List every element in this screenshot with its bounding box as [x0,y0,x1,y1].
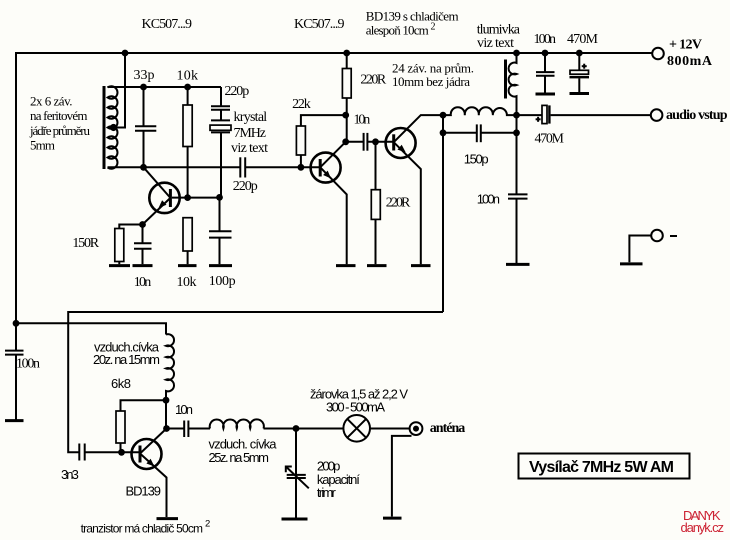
terminal minus circle [651,230,663,242]
svg-text:7MHz: 7MHz [234,126,267,141]
wire 100n supply upper lead [544,53,546,72]
wire collector node to 10n out [167,428,185,430]
svg-text:800mA: 800mA [667,54,713,69]
capacitor 200p trimmer [287,475,306,478]
junction trimmer node [293,425,300,432]
wire emitter to 10n [142,225,144,244]
junction rail tlumivka [513,50,520,57]
capacitor 150p [477,124,481,142]
junction rail 470M supply [576,50,583,57]
junction rail 100n supply [542,50,549,57]
plus sign (supply 470M) [582,64,587,69]
wire 6k8 branch horizontal [121,400,167,411]
ground (100p) [209,264,232,267]
inductor air coil 25z (output) [210,419,264,428]
resistor 10k (upper) [183,105,192,147]
wire 33p branch lower [143,131,145,167]
junction Q1 base / 10k divider [184,194,191,201]
ground (220R bias) [367,264,387,267]
wire 220p to krystal [220,110,222,120]
svg-text:10n: 10n [175,402,193,417]
transistor Q1 KC507 circle [149,183,179,213]
wire 150R to ground [118,262,120,265]
antenna jack outer circle [410,422,423,435]
resistor 10k (lower divider) [183,218,192,251]
junction 22k / 220R / Q2 collector rail [342,112,349,119]
ground (Q4 emitter) [157,517,179,520]
inductor L1 (24 zav. air coil) [443,107,517,115]
junction 10k top [184,84,191,91]
svg-text:22k: 22k [292,97,311,112]
terminal +12V circle [652,48,664,60]
svg-text:300 - 500mA: 300 - 500mA [326,400,385,415]
ground (trimmer) [282,518,308,521]
svg-text:krystal: krystal [234,110,268,125]
junction 33p top [140,84,147,91]
wire 3n3 to Q4 base [85,451,140,453]
svg-text:10n: 10n [134,275,151,290]
capacitor 470M electrolytic (supply) [570,70,590,78]
wire 22k top to 220R bottom node [301,115,346,126]
inductor air coil 20z (PA collector choke) [166,334,174,400]
svg-text:5mm: 5mm [30,138,55,153]
wire 10k lower lead to base node [187,147,189,198]
svg-text:150R: 150R [72,236,99,251]
wire 100n to ground [516,199,518,263]
svg-text:anténa: anténa [430,421,466,436]
ground (antenna) [383,517,402,520]
junction 33p bottom / Q1 collector [140,164,147,171]
resistor 220R (Q2 collector) [342,69,351,99]
transistor Q4 emitter arrow [146,459,154,467]
transistor Q3 emitter diagonal [394,142,421,264]
capacitor 33p [135,126,156,131]
junction Q2 base / 22k [298,164,305,171]
capacitor 10n (emitter bypass) [134,243,152,249]
svg-text:viz text: viz text [231,141,268,156]
wire 220R bias to ground [375,219,377,264]
transformer T1 core bar [103,86,106,169]
wire 10n to output coil [189,428,210,430]
transistor Q2 emitter diagonal [320,167,347,264]
resistor 6k8 [116,411,125,443]
wire minus terminal stub [629,236,650,263]
ground (150R) [109,264,130,267]
wire top +12V rail [16,53,652,351]
junction LC left top [440,112,447,119]
wire 470M supply upper lead [578,53,580,70]
transistor Q1 collector diagonal [144,167,171,198]
junction 150p right [513,129,520,136]
wire 220R bottom through node to Q2 collector node [346,98,348,142]
svg-text:alespoň 10cm: alespoň 10cm [366,23,429,38]
svg-text:trimr: trimr [317,485,337,500]
wire Q1 base to divider node [172,197,220,199]
ground (100n supply) [536,93,556,96]
wire 220R top to rail [346,53,348,69]
wire cap to audio terminal [551,114,651,116]
svg-text:BD139 s chladičem: BD139 s chladičem [366,9,459,24]
ground (left rail 100n) [5,419,24,422]
wire modulated node down to 100n [516,133,518,195]
plus sign (audio 470M) [536,117,541,122]
wire 220R bias upper lead [375,142,377,190]
transistor Q4 emitter diagonal [140,454,167,518]
capacitor 220p (krystal series) [211,106,230,109]
junction rail 220R [343,50,350,57]
junction Q2 collector / 10n [342,138,349,145]
svg-text:100n: 100n [16,357,40,372]
transistor Q2 base bar [319,159,322,177]
wire trimmer to ground [295,478,297,517]
label minus dash [670,235,677,237]
svg-text:220R: 220R [360,73,386,88]
svg-text:25z. na 5mm: 25z. na 5mm [209,450,270,465]
wire 10k lower to ground [187,251,189,264]
wire 10k upper lead [187,87,189,105]
capacitor 3n3 [79,444,84,461]
inductor tlumivka winding [509,53,517,133]
svg-text:220p: 220p [225,84,250,99]
junction krystal bottom / 100p [216,194,223,201]
transistor Q1 emitter diagonal [143,198,171,225]
svg-text:220p: 220p [233,179,258,194]
svg-text:20z. na 15mm: 20z. na 15mm [93,352,160,367]
ground (Q2 emitter) [336,264,356,267]
wire 33p branch upper [143,87,145,126]
junction 150p left [440,129,447,136]
transistor Q2 collector diagonal [320,142,346,168]
ground (10k lower) [178,264,197,267]
wire 22k lower lead [300,155,302,167]
svg-text:KC507...9: KC507...9 [294,17,345,32]
ground (100n modulation) [506,263,530,266]
wire feedback top y87 [108,86,222,88]
svg-text:220R: 220R [386,196,411,211]
wire 10n to Q3 base [368,141,394,143]
capacitor 100n (supply) [536,72,555,76]
transistor Q3 base bar [392,134,395,150]
transistor Q3 BD139 circle [386,128,416,158]
wire driver output to PA base (long L) [68,312,443,452]
lamp bulb X [347,419,366,438]
wire 6k8 to base node [120,443,122,452]
svg-text:tranzistor má chladič 50cm: tranzistor má chladič 50cm [81,522,203,536]
wire krystal branch corner [220,87,222,106]
svg-text:+ 12V: + 12V [669,38,702,53]
transistor Q2 KC507 circle [311,153,341,183]
svg-text:10n: 10n [354,113,371,128]
capacitor 10n (PA output) [184,421,188,438]
junction Q1 emitter node [139,221,146,228]
junction transformer center tap [110,124,117,131]
ground (470M supply) [570,92,590,95]
transistor Q2 emitter arrow [323,171,331,179]
svg-text:150p: 150p [464,152,489,167]
wire rail drop to transformer tap [109,53,125,128]
wire krystal to base node (crossover of main line) [220,133,222,198]
svg-text:2x 6 záv.: 2x 6 záv. [30,94,73,109]
capacitor 100n (left rail decoupling) [5,351,24,355]
transistor Q4 collector diagonal [140,429,167,454]
svg-text:33p: 33p [134,68,155,83]
junction Q3 base / 220R bias [372,138,379,145]
capacitor 100n (modulation node) [508,194,528,198]
wire 470M supply to ground [578,78,580,92]
wire output coil to trimmer node [264,428,344,430]
capacitor 470M electrolytic (audio coupling) [542,105,551,123]
svg-text:2: 2 [205,519,210,530]
junction LC right top [513,112,520,119]
transistor Q3 collector diagonal [394,115,443,142]
wire 10n to ground [142,249,144,264]
svg-text:10k: 10k [177,69,199,84]
wire emitter to 150R [119,225,142,229]
transistor Q1 base bar [169,189,172,207]
svg-text:BD139: BD139 [126,484,162,499]
capacitor 10n (driver coupling) [364,133,368,151]
wire trimmer upper lead [295,429,297,475]
svg-text:na feritovém: na feritovém [30,108,88,123]
ground (10n) [133,264,153,267]
junction left rail modulated feed [13,320,20,327]
terminal audio vstup circle [651,109,663,121]
junction choke bottom / 6k8 [163,397,170,404]
svg-text:100p: 100p [209,274,236,289]
svg-text:100n: 100n [477,191,500,206]
tlumivka core bar [504,60,507,99]
svg-text:3n3: 3n3 [61,467,79,482]
svg-text:100n: 100n [534,32,557,47]
svg-text:viz text: viz text [477,36,514,51]
wire collector node to 10n cap [346,141,364,143]
transformer T1 winding (2x 6 zav.) [108,86,118,169]
ground (Q3 emitter) [411,264,431,267]
capacitor 220p (interstage coupling) [240,157,245,177]
wire LC left vertical down to PA feed [442,115,444,312]
title box Vysilac 7MHz 5W AM [519,454,690,479]
wire antenna sleeve to ground [392,436,412,517]
junction Q4 collector node [163,425,170,432]
wire left rail lower segment to ground [15,355,17,420]
svg-text:KC507...9: KC507...9 [142,17,193,32]
capacitor 100p [209,231,232,237]
svg-text:10mm bez jádra: 10mm bez jádra [392,74,470,89]
trimmer arrow [286,467,309,489]
svg-text:470M: 470M [535,132,565,147]
wire audio modulation line [517,114,543,116]
svg-text:audio vstup: audio vstup [666,108,728,123]
wire coupling cap to Q2 base [245,166,320,168]
svg-text:jádře průměru: jádře průměru [29,123,91,138]
wire choke to collector node [165,400,167,428]
transistor Q4 BD139 circle [132,439,162,469]
wire 100n supply to ground [544,76,546,93]
svg-text:470M: 470M [567,32,599,47]
transistor Q3 emitter arrow [398,145,406,153]
wire modulated feed to PA choke [16,323,166,334]
resistor 150R [115,229,124,262]
svg-text:danyk.cz: danyk.cz [681,520,725,535]
wire 100p upper lead [219,197,221,231]
svg-text:10k: 10k [177,275,197,290]
ground (minus terminal) [620,262,643,265]
resistor 22k [296,126,305,155]
transistor Q4 base bar [139,446,142,463]
wire 150p row right [481,132,517,134]
wire 150p row left [443,132,477,134]
transistor Q1 emitter arrow [159,200,167,208]
antenna jack center dot [413,426,419,432]
wire 100p to ground [219,238,221,264]
crystal X1 7MHz [210,120,231,132]
wire oscillator main line y167 [108,166,240,168]
svg-text:6k8: 6k8 [111,376,131,391]
wire bulb to antenna [370,428,410,430]
junction Q4 base / 6k8 [118,449,125,456]
svg-text:Vysílač 7MHz 5W AM: Vysílač 7MHz 5W AM [529,459,674,476]
svg-text:2: 2 [431,22,436,33]
lamp bulb circle [343,415,370,442]
junction rail x125 [122,50,129,57]
resistor 220R (Q3 bias) [371,190,380,220]
